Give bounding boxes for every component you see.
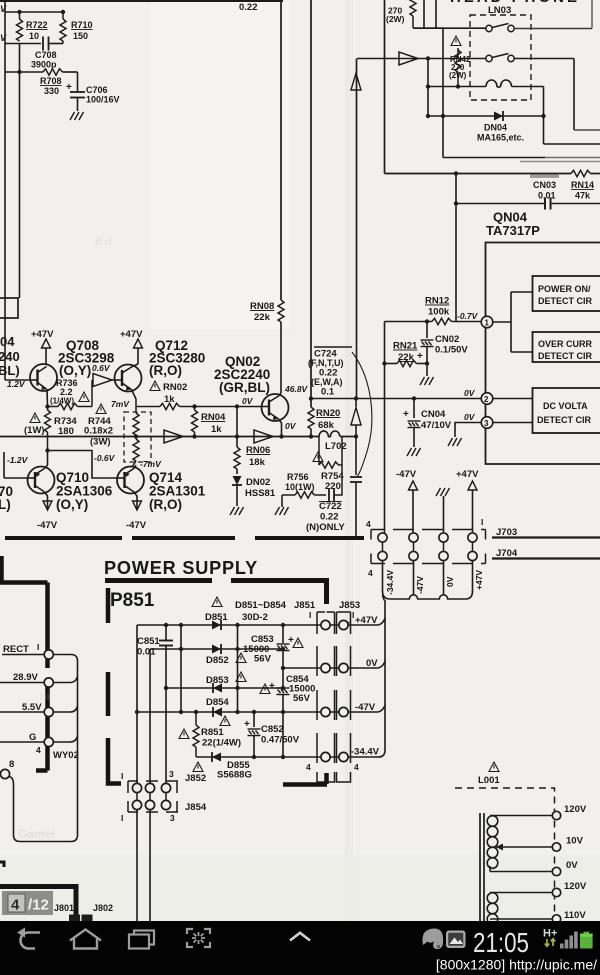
diode D851 [212,620,221,630]
node circle 2 [481,393,532,405]
wire vertical x=543.5 [543,87,545,145]
resistor RN?2 270 2W vertical [449,48,471,87]
transistor Q708 [30,364,57,391]
junction dots y=688 y=712 [135,686,285,714]
capacitor C851 [137,625,173,786]
wire tap 0V [490,871,552,873]
capacitor C706 [66,72,120,111]
svg-text:J801: J801 [54,903,74,913]
warning triangle D855 [193,762,203,772]
resistor R722 [17,10,48,41]
thick border P851 left dashed [106,588,111,782]
resistor R736 [48,378,93,410]
svg-text:(3W): (3W) [90,437,111,448]
svg-text:4: 4 [306,762,311,772]
svg-text:D851: D851 [205,612,228,623]
bus trunk right of WY02 [10,655,78,842]
arc 5.5V into trunk [54,706,78,712]
svg-text:68k: 68k [318,420,335,431]
svg-text:CN03: CN03 [533,180,556,190]
bus trunk vertical x=385 [349,595,386,757]
thick border P851 top segment 1 [105,578,212,583]
svg-text:C851: C851 [137,636,160,647]
wire vertical x=237.5 [237,625,239,712]
junction dots y=649 [179,647,285,651]
svg-text:10V: 10V [566,836,584,847]
svg-text:4: 4 [354,762,359,772]
svg-text:I: I [481,517,483,527]
output rail y=436.5 [0,436,319,438]
transistor QN02 [262,322,289,437]
svg-text:hr: hr [40,691,52,703]
svg-text:330: 330 [44,86,59,96]
signal arrow up on x=356 top [351,73,361,90]
svg-text:0.6V: 0.6V [92,363,111,373]
svg-text:I: I [37,642,39,652]
junction x=456 y=203.5 [454,201,458,205]
wire y=144 right [544,143,600,145]
dashed box LN03 [470,15,531,100]
junction RN04 top [192,404,196,408]
svg-text:DC VOLTA: DC VOLTA [543,401,588,411]
svg-text:RN14: RN14 [571,180,594,190]
warning triangle RN resistor [451,36,461,46]
node circle 3 [455,417,533,437]
thick border left block bottom stub [36,768,48,773]
grey bar artifact CN03 [530,175,559,178]
wire y=157.5 [443,157,600,159]
svg-text:0V: 0V [445,576,455,587]
warning triangle C853 [293,638,303,648]
junction Q708 emitter node [45,404,49,408]
transistor Q712 [115,364,142,399]
top border line [0,0,283,2]
dashed box L001 [455,788,555,921]
svg-text:-0.7V: -0.7V [457,311,479,321]
svg-text:0.18x2: 0.18x2 [84,426,113,437]
svg-text:3: 3 [169,769,174,779]
svg-text:H+: H+ [543,928,557,940]
svg-text:R708: R708 [40,76,62,86]
svg-text:-34.4V: -34.4V [385,570,395,595]
svg-text:(N)ONLY: (N)ONLY [306,522,345,533]
junction x=237 base wire [235,404,239,408]
svg-text:RN02: RN02 [163,382,187,393]
svg-text:C722: C722 [319,501,342,512]
svg-text:1: 1 [485,319,490,328]
transformer winding upper [487,816,498,872]
svg-text:+47V: +47V [120,329,143,340]
junction RN04 bottom [192,434,196,438]
pin 120V lower [552,888,560,896]
wire top y=12 [5,11,63,13]
wire J753 column pass-throughs [383,542,473,552]
wire J703 [492,536,600,538]
svg-text:D851~D854: D851~D854 [235,600,287,611]
wire Q708 base [5,379,30,381]
pin RECT [44,650,53,659]
wire +47V drop [472,561,474,593]
svg-text:0V: 0V [366,658,378,669]
pin 28.9V [44,678,53,687]
svg-text:J852: J852 [185,773,206,784]
resistor R851 [193,712,241,757]
status H+ network [543,928,557,947]
pin 8 left edge [0,769,9,778]
capacitor CN02 [417,322,468,377]
ground CN02 [420,377,434,385]
svg-text:+: + [417,351,423,362]
buffer arrow Q708-Q712 [93,374,112,387]
buffer arrow on switch2 wire [399,52,418,65]
svg-text:RN12: RN12 [425,296,449,307]
connector J853 dashed column [337,612,351,782]
wire G row [0,741,44,743]
svg-text:D853: D853 [206,675,229,686]
label +47V arrow [456,469,479,532]
wire J854 down x=150 [149,810,151,922]
thick border corner right down [324,578,329,604]
svg-text:DETECT CIR: DETECT CIR [537,415,592,425]
svg-text:4: 4 [366,519,371,529]
label C853 [243,634,294,665]
wire vertical x=384.5 RN21 loop [384,322,386,534]
svg-text:100/16V: 100/16V [86,95,120,105]
ground mid hatch [436,488,450,496]
svg-text:(O,Y): (O,Y) [56,497,88,512]
pin 5.5V [44,707,53,716]
svg-text:HSS81: HSS81 [245,488,276,499]
svg-text:7mV: 7mV [111,399,130,409]
pin 10V [552,843,560,851]
status gallery icon [446,931,466,949]
svg-text:22(1/4W): 22(1/4W) [202,738,241,749]
svg-text:(R,O): (R,O) [149,497,182,512]
wire 5.5V row [0,711,44,713]
label -47V arrow [396,469,418,532]
svg-text:-47V: -47V [355,702,376,713]
svg-text:2: 2 [484,395,489,404]
wire tap 110V bottom [490,918,552,920]
junction coil wire x=458 [456,84,460,88]
svg-text:0.22: 0.22 [239,2,258,13]
wire tap 120V lower [490,892,552,894]
ground DN02 [230,507,244,515]
nav back button [17,928,40,949]
warning triangle R851 left [179,729,189,739]
connector J753 dashed box [371,530,486,564]
capacitor C852 [244,712,300,757]
svg-text:R710: R710 [71,20,93,30]
pin 0V [552,867,560,875]
wire vertical x=92 [91,380,93,407]
connector J753 pins row1 [378,533,477,542]
junction DN04 wire x=543.5 [541,114,545,118]
junction CN02 top [425,319,429,323]
svg-text:RN04: RN04 [201,412,226,423]
svg-text:0.01: 0.01 [538,191,556,201]
transistor Q714 [117,465,144,510]
warning triangle D853 [236,672,246,682]
capacitor C722 [306,465,345,533]
svg-text:C706: C706 [86,85,108,95]
wire J851-J853 row pass-throughs [330,625,339,757]
svg-text:RN08: RN08 [250,301,274,312]
resistor R744 lower 0.18 [132,435,139,467]
ground circle3 [448,438,462,446]
svg-text:J703: J703 [496,527,517,538]
svg-text:+47V: +47V [31,329,54,340]
svg-text:47k: 47k [575,191,591,201]
svg-text:8: 8 [9,759,14,770]
wire ghost y=161 [520,161,600,163]
svg-text:J704: J704 [496,548,518,559]
svg-text:(2W): (2W) [386,14,405,24]
svg-text:21:05: 21:05 [473,927,529,958]
svg-text:POWER SUPPLY: POWER SUPPLY [104,558,258,578]
svg-text:0V: 0V [285,421,297,431]
warning triangle (1W) [30,413,40,423]
svg-text:POWER ON/: POWER ON/ [538,284,591,294]
svg-text:C852: C852 [261,724,284,735]
diode D852 [212,644,221,654]
resistor RN02 [160,403,262,409]
svg-text:R851: R851 [201,727,224,738]
svg-text:30D-2: 30D-2 [242,612,268,623]
wire y=399 long [311,398,482,400]
junction RN06 rail [235,434,239,438]
svg-text:I: I [121,813,123,823]
svg-text:+: + [403,409,409,420]
svg-text:WY02: WY02 [53,750,79,761]
warning triangle L001 [489,762,499,772]
junction x=428 DN04 wire [426,114,430,118]
status battery [580,932,593,949]
switch 2 LN03 [486,54,514,62]
svg-text:Gamei: Gamei [18,827,55,841]
svg-text:(E,W,A): (E,W,A) [311,377,343,387]
svg-text:1k: 1k [211,424,222,435]
thick border P851 top segment 2 [231,578,329,583]
svg-text:4: 4 [11,897,20,914]
svg-text:-34.4V: -34.4V [351,747,380,758]
svg-text:C708: C708 [35,50,57,60]
svg-text:TA7317P: TA7317P [486,223,540,238]
nav caret handle [290,933,310,941]
inductor L702 [319,431,356,452]
wire corner from x=357 down [356,59,358,400]
junction x=428 coil wire [426,84,430,88]
long wire y=173.5 [385,173,600,175]
svg-text:I: I [352,610,354,620]
svg-text:BL): BL) [0,363,20,378]
svg-text:10(1W): 10(1W) [285,482,315,492]
wire -34.4V drop [382,561,384,593]
resistor RN08 [250,0,284,323]
wire vertical x=311 from top [310,0,312,407]
thick border left block top [0,556,48,583]
svg-text:J802: J802 [93,903,113,913]
junction C853 bottom [281,666,285,670]
wire Q708 emitter down [46,389,49,406]
svg-text:(2W): (2W) [449,71,467,80]
junction RN21 right [425,361,429,365]
transistor Q710 [28,451,55,511]
resistor RN04 [192,407,227,437]
wire vertical x=428 [427,59,429,117]
box OVER CURRENT DETECT [533,332,600,362]
svg-text:0.1/50V: 0.1/50V [435,345,468,356]
svg-text:(GR,BL): (GR,BL) [219,380,270,395]
node circle 1 [481,316,493,328]
svg-text:I: I [121,771,123,781]
svg-text:3: 3 [170,813,175,823]
capacitor C853 on x=283 [277,625,290,666]
svg-text:46.8V: 46.8V [284,384,309,394]
connector block J802 [82,915,93,923]
svg-text:180: 180 [58,426,74,437]
svg-text:18k: 18k [249,457,266,468]
connector J753 pins row2 [378,551,477,560]
wire buf to Q712 base [112,379,117,381]
svg-text:0V: 0V [566,860,578,871]
wire corner x=443 [413,28,443,157]
wire vertical x=384.5 top [384,0,386,174]
svg-text:DN02: DN02 [246,477,270,488]
svg-text:22k: 22k [254,312,271,323]
svg-text:DETECT CIR: DETECT CIR [538,351,593,361]
wire vertical x=436 top [435,0,437,28]
svg-text:-47V: -47V [415,576,425,594]
thick border corner right bottom [324,773,329,784]
row merge -47V J853 [349,705,386,712]
svg-text:+47V: +47V [355,615,378,626]
ground for C722 network [275,500,289,515]
svg-text:/12: /12 [28,897,49,914]
resistor RN14 [571,170,594,200]
row merge 0V J853 [349,661,386,668]
svg-text:(1W): (1W) [24,425,45,436]
svg-text:47/10V: 47/10V [421,420,452,431]
transformer winding lower [487,893,498,925]
supply arrow -47V Q714 [133,501,142,510]
svg-text:0V: 0V [242,396,254,406]
warning triangle RN02 [150,381,160,391]
svg-text:S5688G: S5688G [217,770,252,781]
junction dots y=757 [252,755,285,759]
svg-text:+: + [66,82,72,93]
svg-text:0.47/50V: 0.47/50V [261,735,300,746]
capacitor C726 series on x=356 [350,477,362,537]
svg-text:04: 04 [0,334,15,349]
svg-text:240: 240 [0,349,20,364]
svg-text:56V: 56V [293,693,311,704]
svg-text:DN04: DN04 [484,123,507,133]
label C724 block [308,347,352,398]
svg-text:RN21: RN21 [393,341,418,352]
resistor R754 parallel [319,437,344,493]
svg-text:R756: R756 [287,472,309,482]
resistor RN20 [308,407,340,437]
status evernote icon [422,929,443,950]
wire vertical x=181 [180,625,182,712]
svg-text:2.2: 2.2 [60,387,73,397]
junction RN20 rail [309,434,313,438]
svg-text:J854: J854 [185,802,207,813]
svg-text:3: 3 [484,419,489,428]
junction DN04 wire x=443 [441,114,445,118]
svg-text:I: I [309,610,311,620]
svg-text:0.1: 0.1 [321,387,335,398]
row merge +47V J853 [349,618,386,625]
svg-text:4: 4 [368,568,373,578]
nav home button [70,930,101,949]
svg-text:D854: D854 [206,697,229,708]
thick dashed separator segment 1 [5,536,122,540]
svg-text:0.22: 0.22 [320,512,339,523]
leader arc from C724 [352,352,372,477]
junction R744 on rail [134,434,138,438]
svg-text:L702: L702 [325,441,347,452]
buffer arrow on rail right [254,430,273,443]
inductor LN03 coil [428,80,544,87]
svg-text:-47V: -47V [126,520,147,531]
nav screenshot button [187,929,210,947]
svg-text:150: 150 [73,31,88,41]
svg-text:CN04: CN04 [421,409,446,420]
wire vertical x=424 top [423,0,425,28]
wire left vertical bus x=5 [4,0,6,380]
wire y=649 D852 [150,648,283,650]
svg-text:10: 10 [29,31,39,41]
bus corner and hops y=599 [383,591,473,599]
svg-text:4: 4 [36,745,41,755]
page indicator 4/12 [2,891,53,915]
warning triangle R851 top [220,716,230,726]
svg-text:CN02: CN02 [435,334,459,345]
svg-text:OVER CURR: OVER CURR [538,339,593,349]
svg-text:3900p: 3900p [31,60,57,70]
connector J851 dashed column [317,612,335,782]
resistor R744 upper 0.18 [133,399,139,435]
svg-text:28.9V: 28.9V [13,672,38,683]
svg-text:RN06: RN06 [246,445,270,456]
svg-text:RN20: RN20 [316,408,340,419]
svg-text:(F,N,T,U): (F,N,T,U) [308,358,344,368]
svg-text:-0.6V: -0.6V [94,453,116,463]
svg-text:(O,Y): (O,Y) [59,363,91,378]
svg-text:+: + [244,719,250,730]
svg-text:0.01: 0.01 [137,647,156,658]
svg-text:+47V: +47V [474,570,484,590]
warning triangle L702 [313,452,323,462]
thick border P851 bottom [108,782,327,785]
svg-text:J851: J851 [294,600,316,611]
svg-text:220: 220 [325,481,341,492]
wire tap 120V [490,815,552,817]
warning triangle near R736 [79,392,89,402]
ground below C706 [70,112,84,120]
junction x=456 on y=173.5 [454,171,458,175]
junction x=356 node 399 [354,396,358,400]
svg-text:V: V [0,33,7,43]
junction x=428 switch2 wire [426,56,430,60]
wire vertical x=150 [149,649,151,786]
wire y=43 [5,43,41,45]
svg-text:0V: 0V [464,388,476,398]
dashed box R744 [124,412,151,462]
buffer arrow on rail left [164,430,183,443]
